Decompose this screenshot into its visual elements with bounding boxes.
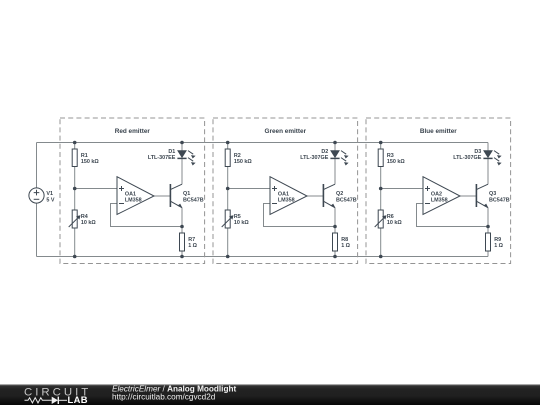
wire: OA1 output to Q1 base [154, 195, 170, 197]
wire: D3 anode feed (top rail right end drop) [487, 143, 489, 151]
node: R4 bottom junction [73, 255, 77, 259]
dashed box: Red emitter block [60, 118, 205, 264]
svg-text:R3: R3 [387, 153, 394, 159]
wire: V1 positive lead [36, 143, 38, 189]
svg-text:150 kΩ: 150 kΩ [234, 159, 252, 165]
rheostat R4 10 kOhm [72, 210, 77, 228]
svg-text:LTL-307GE: LTL-307GE [453, 155, 481, 161]
wire: LED D2 cathode to Q2 collector [334, 158, 336, 184]
svg-text:D1: D1 [168, 149, 175, 155]
svg-text:10 kΩ: 10 kΩ [387, 220, 402, 226]
resistor R2 150 kOhm [225, 149, 230, 167]
svg-text:LTL-307EE: LTL-307EE [148, 155, 176, 161]
dashed box: Blue emitter block [366, 118, 511, 264]
transistor Q3 BC547B (NPN) [475, 184, 477, 207]
op-amp OA1 LM358 [117, 177, 154, 215]
svg-text:10 kΩ: 10 kΩ [81, 220, 96, 226]
wire: Q2 emitter to R8 [334, 208, 336, 233]
wire: LED D3 anode drop [487, 143, 489, 151]
CircuitLab logo: resistor-diode squiggle [25, 398, 52, 403]
node: divider junction [379, 187, 383, 191]
wire: LED D1 anode drop [181, 143, 183, 151]
wire: R3 column [380, 143, 382, 150]
wire: noninverting input from divider to OA1 [228, 188, 270, 190]
wire: feedback from OA1 inverting input to emitter [264, 204, 336, 227]
svg-text:LAB: LAB [68, 394, 88, 405]
node: feedback/emitter junction [333, 225, 337, 229]
wire: top supply rail [37, 142, 489, 144]
node: divider junction [226, 187, 230, 191]
wire: noninverting input from divider to OA2 [381, 188, 423, 190]
wire: bottom return rail [37, 256, 489, 258]
svg-text:1 Ω: 1 Ω [494, 243, 503, 249]
svg-text:D2: D2 [321, 149, 328, 155]
svg-text:Q3: Q3 [489, 191, 496, 197]
LED D3 light arrows [494, 151, 499, 155]
svg-text:Blue emitter: Blue emitter [420, 128, 457, 135]
LED D3 LTL-307GE [484, 151, 492, 158]
svg-text:OA1: OA1 [125, 191, 136, 197]
wire: feedback from OA2 inverting input to emitter [417, 204, 489, 227]
svg-text:Green emitter: Green emitter [265, 128, 307, 135]
node: feedback/emitter junction [486, 225, 490, 229]
svg-text:R1: R1 [81, 153, 88, 159]
svg-text:Red emitter: Red emitter [115, 128, 151, 135]
node: LED D1 top junction [180, 141, 184, 145]
resistor R9 1 Ohm [486, 233, 491, 251]
svg-text:BC547B: BC547B [489, 198, 510, 204]
svg-text:R9: R9 [494, 237, 501, 243]
svg-text:150 kΩ: 150 kΩ [387, 159, 405, 165]
svg-text:http://circuitlab.com/cgvcd2d: http://circuitlab.com/cgvcd2d [112, 393, 216, 402]
svg-text:D3: D3 [474, 149, 481, 155]
wire: LED D1 cathode to Q1 collector [181, 158, 183, 184]
wire: OA2 output to Q3 base [460, 195, 476, 197]
svg-text:R2: R2 [234, 153, 241, 159]
LED D2 LTL-307GE [331, 151, 339, 158]
voltage source V1 5 V [29, 188, 44, 203]
node: R5 bottom junction [226, 255, 230, 259]
LED D1 LTL-307EE [178, 151, 186, 158]
svg-text:R8: R8 [341, 237, 348, 243]
rheostat R6 10 kOhm [378, 210, 383, 228]
wire: V1 negative lead [36, 203, 38, 257]
svg-text:LTL-307GE: LTL-307GE [300, 155, 328, 161]
wire: Q3 emitter to R9 [487, 208, 489, 233]
node: feedback/emitter junction [180, 225, 184, 229]
transistor Q2 BC547B (NPN) [322, 184, 324, 207]
node: R3 top junction [379, 141, 383, 145]
svg-text:R5: R5 [234, 214, 241, 220]
wire: OA1 output to Q2 base [307, 195, 323, 197]
node: LED D2 top junction [333, 141, 337, 145]
svg-text:OA1: OA1 [278, 191, 289, 197]
resistor R1 150 kOhm [72, 149, 77, 167]
svg-text:1 Ω: 1 Ω [188, 243, 197, 249]
transistor Q1 BC547B (NPN) [169, 184, 171, 207]
svg-text:Q2: Q2 [336, 191, 343, 197]
wire: Q1 emitter to R7 [181, 208, 183, 233]
wire: noninverting input from divider to OA1 [75, 188, 117, 190]
svg-text:LM358: LM358 [125, 197, 142, 203]
wire: LED D2 anode drop [334, 143, 336, 151]
node: R6 bottom junction [379, 255, 383, 259]
node: R8 bottom junction [333, 255, 337, 259]
node: R7 bottom junction [180, 255, 184, 259]
svg-text:BC547B: BC547B [336, 198, 357, 204]
node: R2 top junction [226, 141, 230, 145]
footer bar [0, 384, 540, 405]
svg-text:10 kΩ: 10 kΩ [234, 220, 249, 226]
dashed box: Green emitter block [213, 118, 358, 264]
svg-text:150 kΩ: 150 kΩ [81, 159, 99, 165]
wire: LED D3 cathode to Q3 collector [487, 158, 489, 184]
resistor R3 150 kOhm [378, 149, 383, 167]
svg-text:R4: R4 [81, 214, 88, 220]
svg-text:Q1: Q1 [183, 191, 190, 197]
resistor R8 1 Ohm [333, 233, 338, 251]
svg-text:BC547B: BC547B [183, 198, 204, 204]
op-amp OA2 LM358 [423, 177, 460, 215]
svg-text:V1: V1 [46, 191, 53, 197]
LED D1 light arrows [188, 151, 193, 155]
svg-text:LM358: LM358 [431, 197, 448, 203]
wire: feedback from OA1 inverting input to emitter [111, 204, 183, 227]
svg-text:R6: R6 [387, 214, 394, 220]
svg-text:5 V: 5 V [46, 197, 54, 203]
wire: R9 bottom to return rail [487, 251, 489, 257]
node: divider junction [73, 187, 77, 191]
svg-text:OA2: OA2 [431, 191, 442, 197]
wire: R2 column [227, 143, 229, 150]
svg-text:LM358: LM358 [278, 197, 295, 203]
svg-text:1 Ω: 1 Ω [341, 243, 350, 249]
wire: R1 column [74, 143, 76, 150]
op-amp OA1 LM358 [270, 177, 307, 215]
LED D2 light arrows [341, 151, 346, 155]
svg-text:R7: R7 [188, 237, 195, 243]
resistor R7 1 Ohm [180, 233, 185, 251]
rheostat R5 10 kOhm [225, 210, 230, 228]
node: R1 top junction [73, 141, 77, 145]
